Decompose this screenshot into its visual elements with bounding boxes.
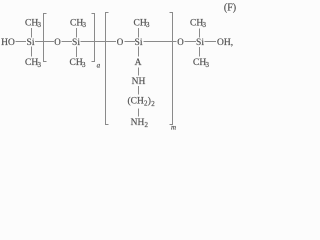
svg-text:O: O	[117, 37, 124, 47]
svg-text:(F): (F)	[224, 2, 236, 13]
svg-text:3: 3	[38, 21, 42, 29]
svg-text:NH: NH	[131, 118, 145, 128]
svg-text:OH,: OH,	[217, 38, 233, 48]
svg-text:(CH: (CH	[128, 96, 145, 107]
svg-text:2: 2	[151, 100, 155, 108]
svg-text:3: 3	[83, 21, 87, 29]
svg-text:CH: CH	[25, 19, 38, 29]
svg-text:CH: CH	[134, 19, 147, 29]
svg-text:3: 3	[203, 21, 207, 29]
svg-text:Si: Si	[196, 38, 204, 48]
svg-text:O: O	[54, 37, 61, 47]
svg-text:Si: Si	[72, 38, 80, 48]
svg-text:3: 3	[146, 21, 150, 29]
svg-text:Si: Si	[27, 38, 35, 48]
svg-text:NH: NH	[132, 77, 146, 87]
svg-text:m: m	[171, 124, 176, 132]
svg-text:2: 2	[145, 121, 149, 129]
svg-text:A: A	[135, 58, 142, 68]
svg-text:Si: Si	[135, 38, 143, 48]
svg-text:CH: CH	[193, 58, 206, 68]
svg-text:3: 3	[38, 61, 42, 69]
svg-text:CH: CH	[70, 58, 83, 68]
svg-text:a: a	[97, 62, 101, 70]
svg-text:CH: CH	[70, 19, 83, 29]
svg-text:CH: CH	[25, 58, 38, 68]
svg-text:O: O	[177, 37, 184, 47]
svg-text:HO: HO	[1, 38, 15, 48]
svg-text:3: 3	[82, 61, 86, 69]
svg-text:3: 3	[206, 61, 210, 69]
svg-text:CH: CH	[190, 19, 203, 29]
